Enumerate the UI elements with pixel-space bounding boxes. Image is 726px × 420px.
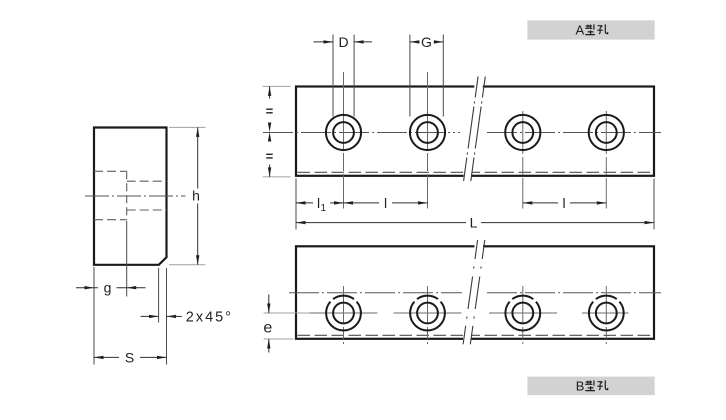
dimension h extension line bottom [169, 264, 206, 266]
bottom bar outline [296, 246, 654, 338]
extension line counterbore depth (for g) [126, 221, 128, 297]
dimension h extension line top [169, 126, 206, 128]
dimension g arrow left [127, 286, 137, 289]
dimension D line right [354, 41, 372, 43]
svg-text:L: L [470, 215, 478, 231]
break line 2 (top bar) [471, 77, 486, 182]
equal sign lower [266, 154, 273, 158]
arrow up at center (lower dim) [268, 132, 271, 142]
hole B3 inner circle [512, 303, 533, 324]
extension line bar right edge (for L) [653, 179, 655, 230]
arrow up at top edge [268, 86, 271, 96]
svg-text:l: l [563, 195, 566, 211]
hole B4 vertical center line [605, 286, 607, 344]
dimension l arrow right2 [597, 201, 607, 204]
side view hole axis center line [85, 195, 186, 197]
extension line right face (for 2x45 and S) [166, 268, 168, 365]
hole B1 inner circle [333, 303, 354, 324]
dimension l1 arrow right [334, 201, 344, 204]
hole B1 outer thread arc [326, 296, 361, 331]
hole B2 horizontal center line [394, 312, 462, 314]
dimension G arrow right-out [434, 40, 444, 43]
dimension 2x45 line left part [141, 315, 159, 317]
glyph xing (A box) [585, 24, 595, 34]
hidden line small hole top [127, 180, 167, 182]
equal sign upper [266, 109, 273, 113]
dimension L arrow left [296, 221, 306, 224]
extension line chamfer left (for 2x45) [158, 268, 160, 323]
dimension D extension left [332, 35, 334, 117]
svg-text:2x45°: 2x45° [186, 310, 233, 326]
hole B2 inner circle [417, 303, 438, 324]
hole B3 vertical center line [522, 286, 524, 344]
svg-text:B: B [576, 379, 585, 394]
svg-text:e: e [263, 320, 272, 337]
B type hole label box [527, 377, 654, 396]
dimension 2x45 arrow left [167, 315, 177, 318]
break line 1 (bottom bar) [463, 240, 478, 344]
hole B2 vertical center line [427, 286, 429, 344]
equal-spacing dim extension top [263, 85, 291, 87]
hole A3 vertical center line [522, 111, 524, 209]
dimension e extension bottom [264, 338, 294, 340]
dimension g line left part [76, 287, 98, 289]
dimension g arrow right [85, 286, 95, 289]
hole A4 vertical center line [605, 111, 607, 209]
dimension g line right part [117, 287, 146, 289]
hidden line counterbore top [94, 170, 127, 172]
top bar center line left piece [263, 132, 455, 134]
dimension 2x45 arrow right [149, 315, 159, 318]
dimension l (second) line [523, 202, 558, 204]
dimension l1 line [296, 202, 313, 204]
dimension S arrow right [157, 356, 167, 359]
dimension D extension right [353, 35, 355, 117]
dimension D arrow left [354, 40, 364, 43]
dimension e arrow top [268, 295, 270, 314]
arrow down at center (upper dim) [268, 123, 271, 133]
bottom bar hidden chamfer line [298, 334, 653, 336]
A type hole label box [527, 20, 654, 39]
dimension l (first) line [344, 202, 380, 204]
bottom bar axis center line left piece [289, 292, 462, 294]
hole A1 inner circle [333, 122, 354, 143]
bottom bar axis center line right piece [487, 292, 661, 294]
glyph xing (B box) [585, 380, 595, 390]
arrow down at bottom edge [268, 167, 271, 177]
side view body outline with chamfer [94, 128, 167, 265]
dimension h arrow down [196, 255, 199, 265]
dimension S arrow left [94, 356, 104, 359]
svg-text:l: l [384, 195, 387, 211]
hole A2 vertical center line [427, 72, 429, 209]
dimension D line left [314, 41, 334, 43]
svg-text:S: S [125, 349, 134, 365]
hole B2 outer thread arc [410, 296, 445, 331]
dimension S line [94, 356, 119, 358]
svg-text:G: G [421, 34, 432, 50]
hole A1 vertical center line [343, 72, 345, 209]
bottom bar break gap masks [475, 244, 484, 249]
hole A3 inner circle [512, 122, 533, 143]
hole B4 horizontal center line [582, 312, 629, 314]
dimension e arrow bottom [268, 339, 270, 353]
dimension G extension left [409, 35, 411, 117]
svg-text:A: A [576, 23, 585, 38]
dimension l arrow left [344, 201, 354, 204]
hole B1 vertical center line [343, 286, 345, 344]
dimension G line right [435, 41, 443, 43]
hole B3 horizontal center line [489, 312, 557, 314]
dimension h arrow up [196, 127, 199, 136]
svg-text:h: h [192, 188, 200, 204]
hidden line counterbore bottom [94, 219, 127, 221]
svg-text:1: 1 [321, 203, 327, 214]
equal-spacing dim line upper stub [269, 86, 271, 98]
hole A2 outer circle [410, 115, 445, 150]
top bar hidden chamfer line [298, 171, 653, 173]
hole B1 horizontal center line [310, 312, 378, 314]
dimension l1 arrow left [296, 201, 306, 204]
break line 1 (top bar) [464, 77, 479, 182]
hole B4 inner circle [596, 303, 617, 324]
top bar outline [296, 87, 654, 176]
top bar center line right piece [487, 132, 661, 134]
svg-text:g: g [104, 280, 112, 296]
equal-spacing dim line lower stub [269, 165, 271, 177]
hole B3 outer thread arc [505, 296, 540, 331]
dimension L line [296, 222, 466, 224]
dimension D arrow right [324, 40, 334, 43]
extension line left face (for g and S) [93, 267, 95, 365]
glyph kong (A box) [597, 24, 607, 33]
top bar break line gap masks [474, 85, 483, 90]
glyph kong (B box) [597, 380, 607, 389]
dimension h line [197, 127, 199, 188]
top bar center line dot at break [458, 132, 460, 134]
equal-spacing dim extension bottom [263, 176, 291, 178]
dimension e extension top (hole axis) [264, 312, 310, 314]
dimension G line left [410, 41, 418, 43]
hole A4 outer circle [589, 115, 624, 150]
extension line bar left edge (for l1 and L) [295, 179, 297, 230]
hole A1 outer circle [326, 115, 361, 150]
hole B4 outer thread arc [589, 296, 624, 331]
hidden line small hole bottom [127, 209, 167, 211]
dimension l arrow left2 [523, 201, 533, 204]
dimension 2x45 line right part [167, 315, 183, 317]
dimension G arrow left-out [410, 40, 420, 43]
hole A3 outer circle [505, 115, 540, 150]
hidden line counterbore step vertical [126, 171, 128, 219]
hole A2 inner circle [417, 122, 438, 143]
dimension L arrow right [645, 221, 655, 224]
dimension l arrow right [418, 201, 428, 204]
dimension G extension right [442, 35, 444, 117]
hole A4 inner circle [596, 122, 617, 143]
break line 2 (bottom bar) [470, 240, 485, 344]
svg-text:D: D [338, 34, 348, 50]
